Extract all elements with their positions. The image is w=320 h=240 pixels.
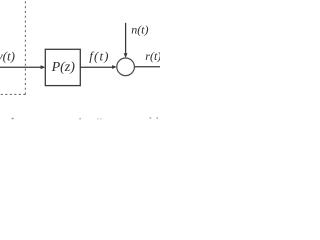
caption remnant specks at bottom edge — [12, 118, 14, 119]
svg-text:f(t): f(t) — [89, 49, 109, 64]
wire into block P(z) — [0, 66, 42, 68]
svg-text:r(t): r(t) — [145, 49, 160, 63]
wire f(t) from P(z) to summing junction — [80, 66, 113, 68]
svg-text:v(t): v(t) — [0, 49, 15, 64]
dashed system boundary (bottom edge) — [0, 93, 25, 95]
svg-text:n(t): n(t) — [131, 23, 148, 37]
arrowhead into P(z) — [41, 65, 46, 69]
summing junction circle — [117, 58, 135, 76]
arrowhead into summing junction (left) — [112, 65, 117, 69]
output wire r(t) — [134, 66, 161, 68]
block P(z) box — [45, 49, 80, 85]
arrowhead into summing junction (top) — [124, 53, 128, 58]
svg-text:P(z): P(z) — [51, 60, 76, 75]
wire n(t) from top — [125, 23, 127, 55]
dashed system boundary (right edge) — [24, 1, 26, 94]
